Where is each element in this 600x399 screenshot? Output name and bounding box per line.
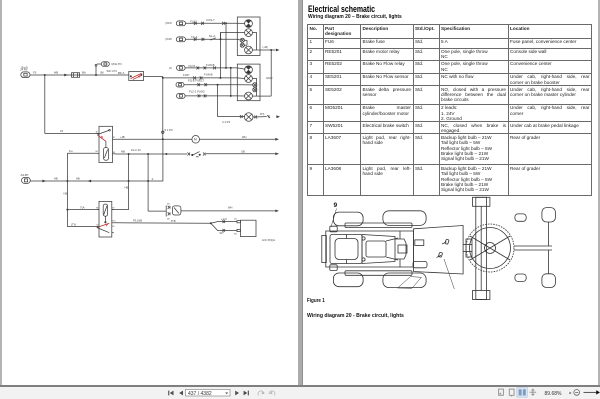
svg-text:(+M): (+M) [263,45,269,49]
wire main bus row [30,177,149,183]
svg-text:DO: DO [234,219,237,221]
tandem axle beam bottom [345,271,412,276]
wire from SW5201 to lamp feed [144,76,163,78]
svg-text:FUS-7: FUS-7 [207,18,216,22]
connector arrow on power row [33,71,68,77]
svg-text:(TN: (TN [71,222,76,226]
svg-text:[O: [O [169,67,172,70]
wire row2 [186,38,238,41]
svg-text:7(A: 7(A [80,205,85,209]
bulb tail [237,75,256,96]
wire ground branch [67,222,99,226]
bulb brake [245,46,260,54]
svg-text:BK: BK [101,71,105,75]
rear wheel left-front [333,212,363,226]
vehicle figure placeholder [0,0,1,1]
svg-text:9: 9 [334,202,338,209]
bulb tail [237,29,256,50]
svg-text:BA: BA [82,71,86,75]
svg-text:5 1 P3: 5 1 P3 [165,128,174,132]
wire to page edge [206,150,279,156]
frame beam [463,245,472,252]
bulb brake [237,92,260,100]
svg-text:GND: GND [266,76,272,80]
svg-text:L5: L5 [60,129,64,133]
cab frame [362,235,398,264]
svg-text:85: 85 [112,226,115,228]
svg-text:M: M [194,137,197,141]
wire vertical bus V2 [225,23,227,68]
svg-text:WH: WH [228,206,232,210]
rear wheel left-rear [383,211,426,226]
reflector bulbs [237,83,257,92]
svg-text:BK A: BK A [118,71,124,75]
node junction col bus [162,138,164,140]
reflector bulbs [237,38,247,47]
svg-text:P0,LNB: P0,LNB [133,218,142,222]
lift cylinder bottom [515,274,526,281]
wire ground bus GND [260,50,272,96]
wire [30,74,72,76]
svg-text:+(B: +(B [120,135,125,139]
sensor SE5202 brake delta pressure sensor [234,219,275,242]
deck detail pod [413,261,427,267]
connector row2 tail lights [166,34,216,42]
wire row1 [186,22,238,25]
svg-text:HB: HB [76,177,80,181]
leader line deck component [444,259,454,289]
wire to relay RE5201 coil [45,75,99,134]
wire mid row4 [185,94,237,97]
wire pod output to +M [260,45,280,52]
motor symbol M on brake motor line [192,136,200,144]
wire relay RE5201 output to motor lamp [115,135,192,139]
svg-text:87: 87 [113,137,116,139]
lift cylinder top [515,214,526,221]
svg-text:4 1 P3: 4 1 P3 [222,120,231,124]
front wheel top [542,208,556,222]
rear wheel right-rear [383,273,426,288]
svg-text:HB: HB [121,150,125,154]
svg-text:NL-A: NL-A [209,34,216,38]
svg-text:19 or 20: 19 or 20 [131,148,141,152]
connector row1 backup lights [166,18,216,26]
circle gear assembly [466,224,514,272]
svg-text:FL2-1 FUSG: FL2-1 FUSG [189,90,205,94]
svg-text:NO: NO [234,234,237,236]
light pod LA3607 rear right [237,17,260,56]
svg-text:M/H-TN: M/H-TN [112,62,122,66]
rear wheel right-front [333,273,363,287]
tandem axle beam top [345,223,412,228]
bulb backup/signal dual filament [237,66,252,74]
svg-text:F1(15: F1(15 [189,65,196,68]
relay RE5201 brake motor relay [96,126,117,162]
svg-text:F1/67: F1/67 [183,74,190,77]
wire to page edge [200,135,279,141]
wire mid row3 [184,83,237,86]
svg-text:Ku: Ku [69,149,73,153]
svg-text:85: 85 [113,152,116,154]
wire Ku to relay RE5201 pin 86 [67,149,96,153]
svg-text:[O4/8: [O4/8 [166,38,173,41]
front axle frame [514,222,552,274]
node junction below W connector [95,69,124,76]
svg-text:GB: GB [241,150,245,154]
svg-text:FS: FS [33,71,37,75]
wire corner up to motor line [148,139,163,181]
svg-text:87a: 87a [112,221,116,223]
sensor SE5201 brake No Flow sensor switch [187,152,205,157]
deck detail toolbox [415,240,424,246]
fuse FU6 [72,71,86,78]
wire vertical x128 to relay RE5202 [112,154,129,210]
svg-text:86: 86 [96,151,99,153]
blade/moldboard bar [473,197,490,299]
svg-text:+1(3: +1(3 [221,217,227,221]
articulation joint [395,231,407,267]
connector B+ battery feed [20,65,30,77]
platform deck [414,226,464,275]
connector mid row1 [169,63,215,70]
machine rear body outline [322,231,414,267]
right page [308,4,375,14]
svg-text:4.: 4. [152,177,155,181]
bulb backup/signal dual filament [237,20,252,28]
svg-text:W?: W? [220,231,225,235]
node junction on power row [44,74,46,76]
connector W (diagnostic) [95,62,122,75]
rear light pod top [330,226,337,232]
connector mid row3 [176,78,205,87]
wire relay RE5201 pin 85 to No Flow sensor [115,148,187,155]
left page schematic placeholder [0,0,1,1]
wire vertical x148 to motor MO5201 [148,154,166,211]
svg-text:WH: WH [242,135,246,139]
wire coil feed [66,205,99,210]
wire relay RE5202 87a to pressure sensor [114,218,211,223]
wire vertical bus x67 [64,153,68,226]
wire mid row2 [162,72,238,79]
rear light pod bottom [330,265,337,271]
engine hood [330,235,362,264]
svg-text:B+/S: B+/S [22,65,28,69]
deck detail marks [437,239,450,257]
front wheel bottom [542,274,556,288]
svg-text:FQ-E FUEL?: FQ-E FUEL? [188,78,205,82]
svg-text:HB: HB [125,186,129,190]
node split junction [210,222,212,224]
svg-text:[O1/8: [O1/8 [166,22,173,25]
connector mid row4 [177,90,205,99]
svg-text:HB: HB [54,71,58,75]
svg-text:30: 30 [96,131,99,133]
wire vertical bus V1 [220,33,222,78]
svg-text:FUN-B: FUN-B [204,72,213,76]
svg-text:HB: HB [54,177,58,181]
svg-text:437 / 4382: 437 / 4382 [188,391,212,397]
relay RE5202 brake No Flow relay [96,201,116,237]
light pod perspective trapezoid [398,277,422,289]
wire motor output to page edge [181,206,279,213]
light pod LA3608 rear left [237,64,260,101]
svg-text:P B: P B [171,219,176,223]
wire vertical bus V3 [230,68,232,96]
svg-text:89.68%: 89.68% [545,391,563,397]
svg-text:PH): PH) [260,113,264,116]
wire vertical bus V4 to signal lamp [217,85,219,117]
lamp signal indicator bottom [218,113,281,124]
label 9 light pods callout [331,202,338,227]
connector A3-B7 [21,173,31,183]
svg-text:A/C P(2)A: A/C P(2)A [262,238,275,242]
wire mid row1 to LA3608 [185,66,237,69]
wire lower contact branch [211,223,237,235]
wire [80,74,129,76]
svg-text:SW 1 P3: SW 1 P3 [107,69,118,73]
motor MO5201 brake master cylinder/booster motor [166,204,181,221]
wire brake light feed from switch [162,77,173,140]
wire upper contact branch [211,217,237,224]
switch SW5201 electrical brake switch (closed, highlighted) [129,72,144,81]
wire tail branch into pod LA3607 [221,33,238,40]
chrome [298,0,303,386]
svg-text:NB: NB [64,192,68,196]
svg-text:M1: M1 [167,204,171,206]
svg-text:A3-B7: A3-B7 [21,173,29,177]
